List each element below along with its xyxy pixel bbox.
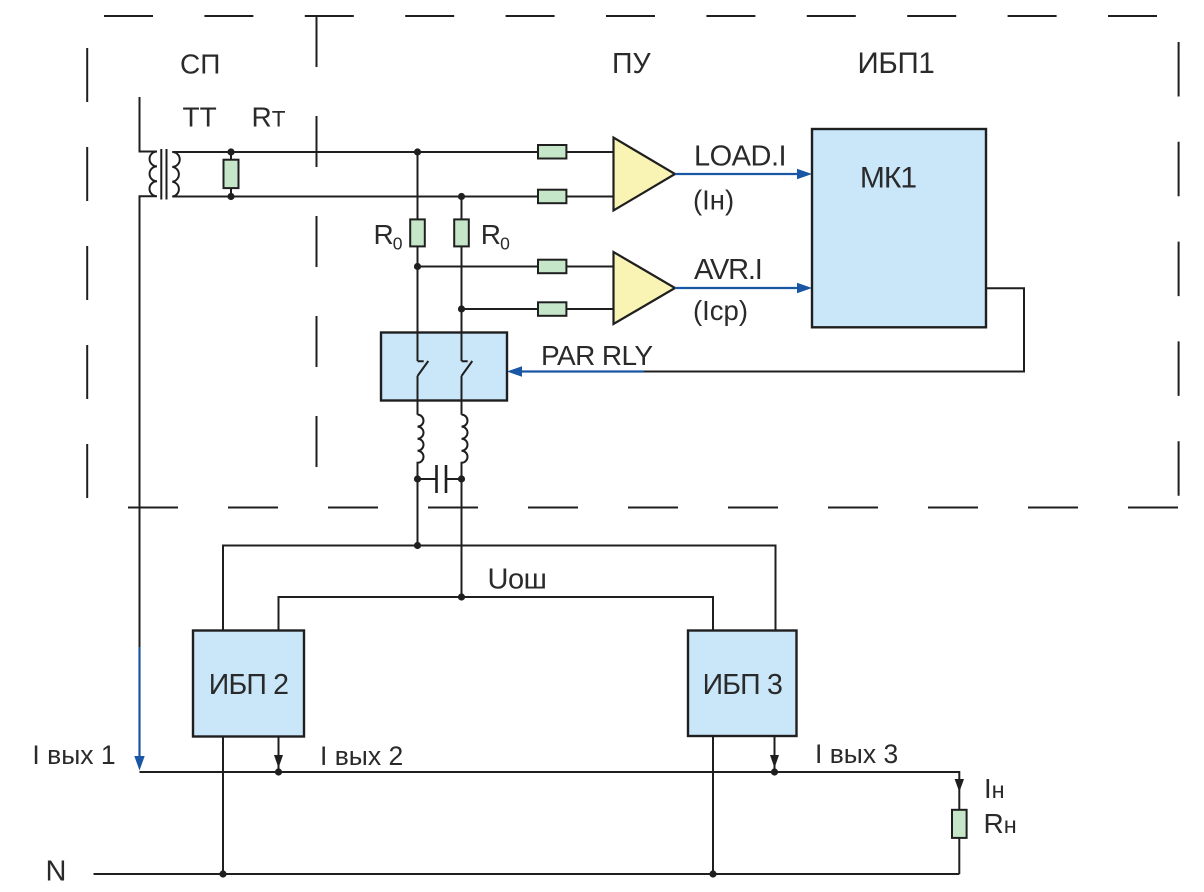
transformer TT core bbox=[160, 149, 162, 200]
svg-text:R: R bbox=[481, 219, 501, 250]
junction bus B bbox=[458, 593, 465, 600]
junction N ИБП2 bbox=[219, 870, 226, 877]
svg-text:LOAD.I: LOAD.I bbox=[694, 141, 786, 173]
wire feedback МК1 to relay bbox=[644, 288, 1024, 371]
transformer TT primary winding and lead bbox=[140, 97, 158, 647]
UPS ИБП2 box bbox=[193, 631, 304, 737]
svg-text:ТТ: ТТ bbox=[183, 102, 217, 133]
svg-text:RТ: RТ bbox=[252, 102, 286, 133]
wire w1 top secondary wire bbox=[172, 151, 613, 153]
svg-text:I вых 2: I вых 2 bbox=[320, 741, 403, 771]
resistor input row1 bbox=[538, 145, 566, 159]
junction right bus top bbox=[458, 193, 465, 200]
divider dashed line between СП and ПУ bbox=[316, 16, 318, 467]
svg-text:(Iн): (Iн) bbox=[693, 185, 734, 216]
junction bus A bbox=[414, 542, 421, 549]
resistor Rт bbox=[230, 152, 232, 197]
svg-text:AVR.I: AVR.I bbox=[694, 254, 762, 286]
transformer TT secondary winding bbox=[172, 152, 179, 197]
svg-text:ИБП1: ИБП1 bbox=[858, 47, 935, 80]
junction Rт bottom bbox=[227, 193, 234, 200]
resistor Rн bbox=[952, 810, 967, 838]
junction N ИБП3 bbox=[709, 870, 716, 877]
wire bus A to ИБП2 and ИБП3 bbox=[223, 546, 776, 631]
microcontroller МК1 bbox=[812, 129, 986, 327]
resistor R0 left bbox=[410, 219, 425, 246]
junction ИБП2 output bbox=[275, 768, 282, 775]
junction C1 left bbox=[414, 475, 421, 482]
svg-text:Iн: Iн bbox=[984, 773, 1005, 804]
wire Rн to N bbox=[958, 838, 960, 874]
wire w2 bottom secondary wire bbox=[172, 196, 613, 198]
svg-text:0: 0 bbox=[393, 234, 403, 254]
svg-text:Uош: Uош bbox=[488, 564, 547, 596]
svg-text:R: R bbox=[374, 219, 394, 250]
block frame right dashed edge bbox=[1178, 42, 1180, 496]
inductor L2 bbox=[462, 415, 468, 597]
block frame left dashed edge bbox=[86, 48, 88, 500]
resistor R0 right bbox=[454, 219, 469, 246]
wire bus B Uош bbox=[279, 597, 714, 631]
op-amp U2 bbox=[614, 252, 676, 324]
junction C1 right bbox=[458, 475, 465, 482]
inductor L1 bbox=[418, 415, 424, 546]
block frame top dashed edge bbox=[104, 15, 1157, 17]
wire left vertical bus bbox=[417, 152, 419, 415]
capacitor C1 bbox=[418, 478, 462, 480]
svg-text:N: N bbox=[46, 856, 67, 888]
junction left bus row3 bbox=[414, 263, 421, 270]
junction right bus row4 bbox=[458, 305, 465, 312]
svg-text:ИБП 2: ИБП 2 bbox=[209, 669, 288, 701]
resistor input row2 bbox=[538, 190, 566, 204]
wire w3 third row wire bbox=[418, 266, 614, 268]
wire ИБП3 left output pin to N bbox=[712, 736, 714, 874]
svg-text:МК1: МК1 bbox=[860, 162, 916, 195]
svg-text:СП: СП bbox=[180, 49, 220, 80]
junction ИБП3 output bbox=[771, 768, 778, 775]
arrow Iн current bbox=[955, 779, 964, 792]
relay switch S1 bbox=[418, 333, 429, 415]
svg-text:ИБП 3: ИБП 3 bbox=[703, 669, 782, 701]
wire AVR.I blue arrow to МК1 bbox=[675, 287, 799, 289]
wire output bus C bbox=[140, 772, 960, 810]
resistor input row3 bbox=[538, 260, 566, 274]
relay switch S2 bbox=[462, 333, 473, 415]
op-amp U1 bbox=[614, 138, 676, 211]
svg-text:I вых 3: I вых 3 bbox=[815, 739, 898, 769]
wire w4 fourth row wire bbox=[462, 308, 614, 310]
svg-text:Rн: Rн bbox=[984, 808, 1017, 839]
svg-text:PAR RLY: PAR RLY bbox=[541, 340, 653, 371]
resistor input row4 bbox=[538, 302, 566, 316]
UPS ИБП3 box bbox=[688, 631, 797, 737]
wire I вых 1 blue drop bbox=[138, 647, 140, 758]
svg-text:0: 0 bbox=[500, 234, 510, 254]
block frame bottom dashed edge bbox=[128, 507, 1179, 509]
wire N line bbox=[94, 873, 960, 875]
wire ИБП2 left output pin to N bbox=[222, 737, 224, 875]
svg-text:I вых 1: I вых 1 bbox=[32, 740, 115, 770]
svg-text:(Iср): (Iср) bbox=[693, 295, 748, 326]
junction Rт top bbox=[227, 148, 234, 155]
wire ИБП2 right output pin bbox=[278, 737, 280, 773]
wire right vertical bus bbox=[461, 197, 463, 415]
svg-text:ПУ: ПУ bbox=[612, 48, 651, 80]
junction left bus top bbox=[414, 148, 421, 155]
wire LOAD.I blue arrow to МК1 bbox=[675, 173, 799, 175]
wire ИБП3 right output pin bbox=[774, 736, 776, 772]
relay K1 box bbox=[381, 333, 507, 401]
wire PAR RLY blue segment bbox=[520, 370, 644, 372]
